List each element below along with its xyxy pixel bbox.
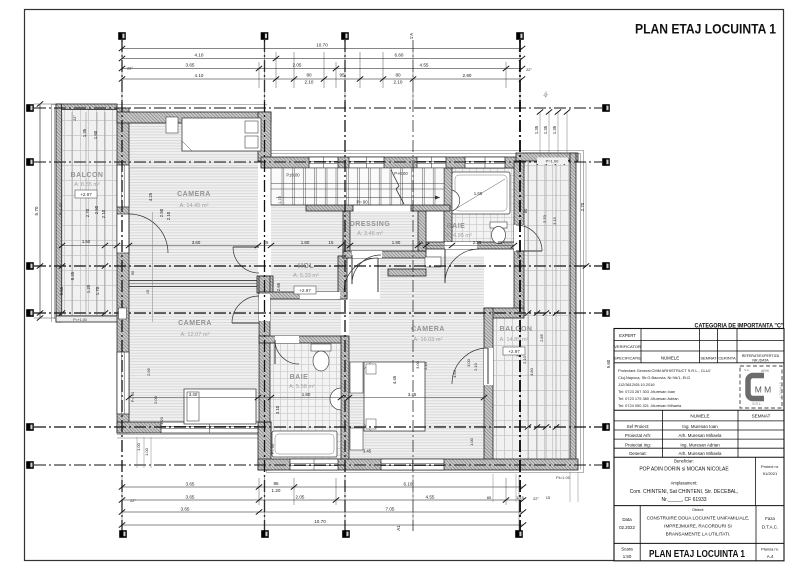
svg-text:3.45: 3.45 xyxy=(408,392,417,397)
door arc camera 12.07 xyxy=(232,296,259,323)
svg-text:POP ADIN DORIN si MOCAN NICOLA: POP ADIN DORIN si MOCAN NICOLAE xyxy=(639,467,729,473)
wall terrace top xyxy=(516,153,578,161)
svg-text:CAMERA: CAMERA xyxy=(178,320,212,327)
svg-text:Arh. Muresan Mihaela: Arh. Muresan Mihaela xyxy=(679,451,723,456)
door arc dressing xyxy=(352,255,381,284)
wall baie 4.95 bottom xyxy=(426,242,524,249)
sink baie 5.58 xyxy=(330,388,341,410)
dimension chains bottom xyxy=(119,472,578,530)
svg-text:Ing. Muresan Ioan: Ing. Muresan Ioan xyxy=(682,424,718,429)
svg-text:3.10: 3.10 xyxy=(275,405,280,414)
svg-text:22°: 22° xyxy=(526,68,532,72)
svg-text:4.80: 4.80 xyxy=(529,367,534,376)
stair break line xyxy=(391,170,404,204)
svg-text:+2.97: +2.97 xyxy=(508,349,520,354)
svg-text:P=+1.00: P=+1.00 xyxy=(73,318,87,322)
svg-text:4.55: 4.55 xyxy=(426,494,435,499)
svg-text:P±0.00: P±0.00 xyxy=(286,173,300,178)
svg-text:CAMERA: CAMERA xyxy=(177,191,211,198)
level label +2.97 xyxy=(503,347,525,355)
wall exterior right upper xyxy=(514,161,524,316)
window baie 5.58 window xyxy=(290,459,338,470)
svg-text:1.35: 1.35 xyxy=(552,125,557,134)
svg-text:1.65: 1.65 xyxy=(474,191,483,196)
door gap balcony baie xyxy=(514,225,524,251)
wall baie 5.58 top xyxy=(259,336,347,343)
svg-text:7.05: 7.05 xyxy=(386,506,395,511)
svg-text:A: 3.46 m²: A: 3.46 m² xyxy=(357,231,383,237)
svg-text:EXPERT: EXPERT xyxy=(619,333,636,338)
svg-text:PLAN ETAJ LOCUINTA 1: PLAN ETAJ LOCUINTA 1 xyxy=(649,549,745,560)
svg-text:BALCON: BALCON xyxy=(500,326,533,333)
svg-text:2.10: 2.10 xyxy=(101,209,106,218)
svg-text:3.65: 3.65 xyxy=(181,506,190,511)
svg-text:80: 80 xyxy=(395,73,401,78)
wall below stairs a xyxy=(306,205,353,211)
svg-text:PLAN ETAJ LOCUINTA 1: PLAN ETAJ LOCUINTA 1 xyxy=(635,22,776,38)
svg-text:IMPREJMUIRE, RACORDURI SI: IMPREJMUIRE, RACORDURI SI xyxy=(664,524,732,529)
wall balcony-left side xyxy=(56,104,62,322)
svg-text:P=1.00: P=1.00 xyxy=(58,202,63,216)
window camera 16.03 window xyxy=(381,459,444,470)
wall jog wall xyxy=(484,308,524,318)
svg-text:1.35: 1.35 xyxy=(534,125,539,134)
svg-text:Nr._____, CF 61933: Nr._____, CF 61933 xyxy=(661,497,706,503)
svg-text:1.90: 1.90 xyxy=(392,240,401,245)
svg-text:Tel: 0723 175 380 -Muresan Adr: Tel: 0723 175 380 -Muresan Adrian xyxy=(618,396,679,401)
svg-text:1.05: 1.05 xyxy=(516,250,521,259)
svg-text:BAIE: BAIE xyxy=(290,374,309,381)
window camera 12.07 west window xyxy=(117,352,129,414)
approvals table xyxy=(614,339,784,341)
window stair window 2 xyxy=(349,157,384,168)
svg-text:2.10: 2.10 xyxy=(522,355,527,364)
svg-text:4.45: 4.45 xyxy=(392,375,397,384)
room floor CAMERA 12.07 xyxy=(129,287,258,422)
wall below stairs b xyxy=(411,205,450,211)
bed camera 14.45 xyxy=(182,118,261,151)
svg-text:4.10: 4.10 xyxy=(195,52,204,57)
svg-text:4.50: 4.50 xyxy=(452,369,457,378)
svg-text:2.00: 2.00 xyxy=(153,395,158,404)
vertical axis x=520 xyxy=(519,40,521,531)
horizontal axis y=465 xyxy=(34,464,602,466)
svg-text:Pt=1.00: Pt=1.00 xyxy=(556,475,571,480)
nightstand xyxy=(166,117,178,133)
wall dressing bottom xyxy=(343,251,426,258)
door arc baie 4.95 xyxy=(445,249,479,283)
window balcony window xyxy=(117,165,129,207)
vertical axis x=122 xyxy=(121,40,123,531)
svg-text:REFERAT/EXPERTIZA: REFERAT/EXPERTIZA xyxy=(742,354,780,358)
svg-text:4.55: 4.55 xyxy=(420,62,429,67)
door arc camera 16.03 entry xyxy=(344,258,378,292)
svg-text:NR./DATA: NR./DATA xyxy=(752,359,769,363)
svg-text:P= 90: P= 90 xyxy=(270,443,275,454)
svg-text:Sef Proiect:: Sef Proiect: xyxy=(627,424,650,429)
svg-text:SEMNAT: SEMNAT xyxy=(752,414,771,419)
svg-text:2.50: 2.50 xyxy=(159,208,164,217)
svg-text:CONSTRUIRE DOUA LOCUINTE UNIFA: CONSTRUIRE DOUA LOCUINTE UNIFAMILIALE, xyxy=(647,516,750,521)
svg-text:95: 95 xyxy=(339,73,345,78)
door arc camera 14.45 xyxy=(233,247,259,273)
window stair window 1 xyxy=(309,157,338,168)
svg-text:10.70: 10.70 xyxy=(314,519,326,524)
toilet baie 5.58 xyxy=(311,344,331,351)
window stair window 3 xyxy=(417,157,446,168)
svg-text:Obiect:: Obiect: xyxy=(692,508,704,512)
wall exterior right lower xyxy=(484,308,493,468)
svg-text:80: 80 xyxy=(523,208,528,213)
svg-text:80: 80 xyxy=(306,73,312,78)
svg-text:Cluj-Napoca, Str.G.Bacovia, Nr: Cluj-Napoca, Str.G.Bacovia, Nr.9A/1, Et.… xyxy=(618,375,690,380)
svg-text:P= 90: P= 90 xyxy=(130,391,135,402)
svg-text:BALCON: BALCON xyxy=(71,172,104,179)
horizontal axis y=266 xyxy=(34,265,602,267)
scara row xyxy=(639,543,641,560)
svg-text:4.25: 4.25 xyxy=(148,192,153,201)
svg-text:15: 15 xyxy=(329,240,334,245)
svg-text:D.T.A.C.: D.T.A.C. xyxy=(762,525,778,530)
svg-text:1.35: 1.35 xyxy=(543,125,548,134)
svg-text:1.50: 1.50 xyxy=(517,199,522,208)
wall balcony-left bottom xyxy=(56,316,129,322)
svg-text:Proiectat Arh:: Proiectat Arh: xyxy=(625,433,651,438)
svg-text:2.05: 2.05 xyxy=(293,62,302,67)
svg-text:Tel: 0723 267 303 -Muresan Ioa: Tel: 0723 267 303 -Muresan Ioan xyxy=(618,389,675,394)
door gap baie 5.58 xyxy=(275,336,299,343)
svg-text:1.00: 1.00 xyxy=(136,442,141,451)
svg-text:Plansa nr.: Plansa nr. xyxy=(761,547,779,552)
horizontal axis y=108 xyxy=(34,107,602,109)
personnel table xyxy=(614,409,784,411)
horizontal axis y=313 xyxy=(34,312,602,314)
door gap dressing xyxy=(352,251,382,258)
svg-text:A: 16.03 m²: A: 16.03 m² xyxy=(414,337,443,343)
room floor CAMERA 14.45 xyxy=(129,123,258,280)
svg-text:6.60: 6.60 xyxy=(395,52,404,57)
svg-text:3.45: 3.45 xyxy=(363,449,372,454)
grid axes xyxy=(34,40,602,531)
level label +2.97 xyxy=(294,286,316,294)
axis markers xyxy=(118,32,126,40)
svg-text:Beneficiar:: Beneficiar: xyxy=(674,459,694,464)
svg-text:P= 90: P= 90 xyxy=(356,200,368,205)
svg-text:15: 15 xyxy=(146,290,150,294)
svg-text:A: 5.33 m²: A: 5.33 m² xyxy=(293,273,319,279)
svg-text:J12/3612/05.10.2016: J12/3612/05.10.2016 xyxy=(618,382,655,387)
room floor BAIE 4.95 xyxy=(452,168,514,242)
svg-text:5.60: 5.60 xyxy=(606,359,611,368)
svg-text:2.05: 2.05 xyxy=(296,494,305,499)
wall stairs/baie separator xyxy=(444,168,452,248)
svg-text:A: 14.45 m²: A: 14.45 m² xyxy=(180,203,209,209)
svg-text:1.70: 1.70 xyxy=(278,196,282,203)
svg-text:3.65: 3.65 xyxy=(186,481,195,486)
interior dimension line y=245 xyxy=(59,240,517,248)
svg-text:S T R U C T: S T R U C T xyxy=(779,382,783,398)
svg-text:10.70: 10.70 xyxy=(316,42,328,47)
svg-text:1'A: 1'A xyxy=(409,33,414,39)
svg-text:1.20: 1.20 xyxy=(86,284,91,293)
svg-text:A1: A1 xyxy=(396,525,401,531)
svg-text:1.20: 1.20 xyxy=(159,416,164,425)
svg-text:15: 15 xyxy=(419,240,424,245)
balcony left floor xyxy=(61,109,117,316)
svg-text:Proiect nr.: Proiect nr. xyxy=(761,464,779,469)
door arc baie 5.58 xyxy=(275,340,299,364)
svg-text:CERINTA: CERINTA xyxy=(718,356,736,361)
wall exterior top-middle xyxy=(261,157,524,168)
door gap balcony 16.03 xyxy=(484,348,493,385)
svg-text:VERIFICATOR: VERIFICATOR xyxy=(614,344,641,349)
window camera 12.07 south window xyxy=(161,422,258,433)
svg-text:3.00: 3.00 xyxy=(466,358,471,367)
svg-text:1.50: 1.50 xyxy=(82,239,91,244)
svg-text:95: 95 xyxy=(273,481,279,486)
staircase xyxy=(271,168,444,205)
svg-text:2.70: 2.70 xyxy=(580,202,585,211)
CMM logo xyxy=(740,366,782,408)
svg-text:2.65: 2.65 xyxy=(276,282,281,291)
svg-text:3.40: 3.40 xyxy=(189,392,198,397)
svg-text:1.70: 1.70 xyxy=(95,286,100,295)
svg-text:8.45: 8.45 xyxy=(70,271,75,280)
title block xyxy=(614,323,784,561)
room floor BAIE 5.58 xyxy=(270,343,341,459)
interior dimension line y=397 xyxy=(126,392,487,400)
wall baie/camera separator xyxy=(341,336,349,459)
svg-text:3.60: 3.60 xyxy=(192,240,201,245)
svg-text:Com. CHINTENI, Sat CHINTENI, S: Com. CHINTENI, Sat CHINTENI, Str. DECEBA… xyxy=(630,489,739,495)
svg-text:25: 25 xyxy=(264,240,269,245)
svg-text:DRESSING: DRESSING xyxy=(350,221,391,228)
wall exterior top-left xyxy=(117,112,271,123)
svg-text:HOL: HOL xyxy=(298,263,315,270)
svg-text:Scara: Scara xyxy=(621,547,633,552)
svg-text:Arh. Muresan Mihaela: Arh. Muresan Mihaela xyxy=(679,433,723,438)
beneficiar block xyxy=(755,457,757,505)
beam line camera 14.45 xyxy=(129,167,258,169)
svg-text:+2.97: +2.97 xyxy=(299,288,311,293)
svg-text:S.C.: S.C. xyxy=(744,368,750,372)
svg-text:SEMNAT: SEMNAT xyxy=(700,356,717,361)
dimension chains right xyxy=(515,91,611,480)
wall exterior bottom-right xyxy=(258,459,578,470)
door gap baie 4.95 xyxy=(445,242,477,249)
wall hol/dressing separator xyxy=(343,205,350,258)
svg-text:3.65: 3.65 xyxy=(186,494,195,499)
door arc balcony camera 16.03 xyxy=(452,348,488,384)
svg-text:02.2022: 02.2022 xyxy=(619,525,635,530)
svg-text:3.65: 3.65 xyxy=(186,62,195,67)
sink baie 4.95 xyxy=(452,190,460,211)
svg-text:22°: 22° xyxy=(73,115,77,121)
door opening balcony xyxy=(117,214,129,253)
svg-text:2.35: 2.35 xyxy=(473,240,482,245)
svg-text:S.R.L.: S.R.L. xyxy=(752,402,761,406)
wall exterior left xyxy=(117,108,129,433)
svg-text:P+0.00: P+0.00 xyxy=(394,171,408,176)
svg-text:ARHI: ARHI xyxy=(761,369,769,373)
svg-text:A: 5.58 m²: A: 5.58 m² xyxy=(289,384,315,390)
washing machine xyxy=(425,257,441,267)
svg-text:3.00: 3.00 xyxy=(415,360,420,369)
wall pillar center xyxy=(257,276,273,293)
svg-text:Data: Data xyxy=(622,517,632,522)
svg-text:SPECIFICATIE: SPECIFICATIE xyxy=(614,356,641,361)
stair direction arrow xyxy=(276,197,440,199)
svg-text:NUMELE: NUMELE xyxy=(661,356,679,361)
misc rotated dims xyxy=(119,192,551,500)
svg-text:2.90: 2.90 xyxy=(463,73,472,78)
horizontal axis y=427 xyxy=(34,426,602,428)
wall between camera 14.45 and 12.07 xyxy=(129,281,273,287)
vertical axis x=413 xyxy=(412,40,414,531)
svg-text:Proiectant General:CMM ARHISTR: Proiectant General:CMM ARHISTRUCT S.R.L.… xyxy=(618,368,711,373)
svg-text:9.65: 9.65 xyxy=(59,286,64,295)
level label +2.97 xyxy=(75,190,97,198)
svg-text:1:50: 1:50 xyxy=(623,554,632,559)
svg-text:5.70: 5.70 xyxy=(34,206,39,215)
vertical axis x=264.5 xyxy=(264,40,266,531)
svg-text:1.20: 1.20 xyxy=(272,488,281,493)
bathtub baie 5.58 xyxy=(272,431,337,457)
svg-text:A: 12.07 m²: A: 12.07 m² xyxy=(181,332,210,338)
wall interior middle vertical xyxy=(259,276,270,422)
wall hol bottom xyxy=(259,292,347,299)
door gap camera 12.07 xyxy=(259,294,270,321)
svg-text:1.80: 1.80 xyxy=(302,392,311,397)
bed camera 16.03 xyxy=(364,362,425,431)
svg-text:A: 14.85 m²: A: 14.85 m² xyxy=(500,337,529,343)
svg-text:Proiectat Ing:: Proiectat Ing: xyxy=(625,442,651,447)
svg-text:M M: M M xyxy=(755,385,772,395)
svg-text:85: 85 xyxy=(498,240,503,245)
svg-text:1.00: 1.00 xyxy=(144,447,149,456)
wall pillar hol xyxy=(338,256,347,299)
nightstands camera 16.03 xyxy=(350,362,363,393)
door arc balcony baie xyxy=(516,225,542,251)
svg-text:2.70: 2.70 xyxy=(542,214,547,223)
dimension chains top xyxy=(119,42,533,102)
svg-text:2.10: 2.10 xyxy=(394,80,403,85)
svg-text:A.4: A.4 xyxy=(767,554,774,559)
window baie window xyxy=(465,157,505,168)
dimension chains left xyxy=(34,101,108,320)
svg-text:Ing. Muresan Adrian: Ing. Muresan Adrian xyxy=(680,442,720,447)
toilet baie 4.95 xyxy=(490,222,507,228)
wall exterior bottom-left xyxy=(117,422,271,433)
wall dressing right xyxy=(418,205,426,251)
svg-text:90: 90 xyxy=(131,271,135,275)
room floor HOL xyxy=(271,205,343,292)
svg-text:CAMERA: CAMERA xyxy=(411,326,445,333)
door gap camera 16.03 xyxy=(300,292,340,299)
svg-text:1.35: 1.35 xyxy=(82,128,87,137)
svg-text:NUMELE: NUMELE xyxy=(690,414,709,419)
svg-text:A: 4.95 m²: A: 4.95 m² xyxy=(446,233,472,239)
wall stair connector xyxy=(258,112,271,161)
door arc balcony->camera14.45 xyxy=(129,214,168,253)
svg-text:1.80: 1.80 xyxy=(301,240,310,245)
svg-text:15: 15 xyxy=(546,495,551,500)
upper floor contour xyxy=(52,105,584,473)
svg-text:Desenat:: Desenat: xyxy=(629,451,647,456)
svg-text:2.10: 2.10 xyxy=(423,361,428,370)
svg-text:22°: 22° xyxy=(127,67,133,71)
svg-text:+2.97: +2.97 xyxy=(80,192,92,197)
svg-text:2.10: 2.10 xyxy=(166,211,171,220)
svg-text:BAIE: BAIE xyxy=(447,223,466,230)
svg-text:2.10: 2.10 xyxy=(473,362,478,371)
svg-text:22°: 22° xyxy=(130,499,136,503)
svg-text:1.00: 1.00 xyxy=(469,437,474,446)
svg-text:85: 85 xyxy=(487,495,492,500)
svg-text:22°: 22° xyxy=(533,497,539,501)
bed camera 12.07 xyxy=(184,389,256,424)
svg-text:Faza: Faza xyxy=(765,516,775,521)
vertical axis x=345 xyxy=(344,40,346,531)
svg-text:1.15: 1.15 xyxy=(516,495,525,500)
svg-text:91/2021: 91/2021 xyxy=(763,471,778,476)
svg-text:2.95: 2.95 xyxy=(146,367,151,376)
svg-text:2.10: 2.10 xyxy=(305,80,314,85)
svg-text:2.50: 2.50 xyxy=(94,205,99,214)
wall niche stub xyxy=(388,269,426,276)
horizontal axis y=162 xyxy=(34,161,602,163)
wall connector bottom xyxy=(258,422,271,470)
wall terrace railing right xyxy=(570,153,576,468)
svg-text:6.10: 6.10 xyxy=(404,481,413,486)
svg-text:P=1.00: P=1.00 xyxy=(546,159,560,164)
door gap camera 14.45 xyxy=(259,247,270,274)
svg-text:3.15: 3.15 xyxy=(552,216,557,225)
svg-text:A: 8.55 m²: A: 8.55 m² xyxy=(74,182,100,188)
balcony right floor xyxy=(493,161,570,459)
room floor DRESSING xyxy=(350,211,418,251)
svg-text:Tel: 0724 050 321 -Muresan Mih: Tel: 0724 050 321 -Muresan Mihaela xyxy=(618,403,682,408)
room floor CAMERA 16.03 xyxy=(349,299,484,459)
svg-text:2.70: 2.70 xyxy=(85,208,90,217)
svg-text:BRANSAMENTE LA UTILITATI.: BRANSAMENTE LA UTILITATI. xyxy=(666,532,731,537)
svg-text:Amplasament:: Amplasament: xyxy=(671,481,698,486)
svg-text:1.60: 1.60 xyxy=(93,130,98,139)
svg-text:4.10: 4.10 xyxy=(195,73,204,78)
bathtub baie 4.95 xyxy=(452,172,510,214)
obiect block xyxy=(639,506,641,544)
wall balcony-left top xyxy=(56,104,117,110)
svg-text:2.85: 2.85 xyxy=(539,333,544,342)
